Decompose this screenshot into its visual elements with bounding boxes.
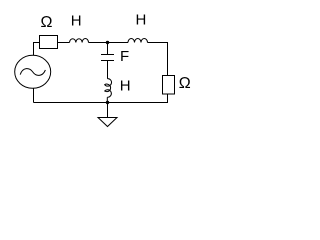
svg-text:H: H: [71, 13, 82, 30]
wire source top lead: [34, 43, 40, 56]
capacitor C1: [101, 54, 114, 56]
svg-text:Ω: Ω: [179, 75, 191, 92]
inductor L3: [105, 79, 112, 98]
svg-text:H: H: [120, 78, 131, 95]
wire source bottom lead: [33, 88, 35, 102]
ac source V1: [15, 55, 51, 88]
wire node A to capacitor: [107, 43, 109, 55]
resistor R1: [40, 36, 58, 49]
svg-text:Ω: Ω: [41, 14, 53, 31]
sine wave: [20, 69, 45, 76]
inductor L2: [128, 39, 148, 43]
wire L2 to right rail: [148, 43, 168, 76]
resistor R2: [163, 76, 175, 95]
wire L3 to node B: [106, 97, 108, 102]
wire R1 to L1: [58, 42, 70, 44]
node A junction dot: [106, 41, 109, 44]
wire R2 to bottom rail: [34, 94, 168, 103]
svg-text:F: F: [120, 48, 129, 65]
wire L1 to node A: [89, 42, 129, 44]
inductor L1: [70, 39, 89, 43]
ground: [107, 103, 109, 118]
wire C1 to L3: [107, 61, 109, 79]
svg-text:H: H: [136, 12, 147, 29]
node B junction dot: [106, 101, 109, 104]
